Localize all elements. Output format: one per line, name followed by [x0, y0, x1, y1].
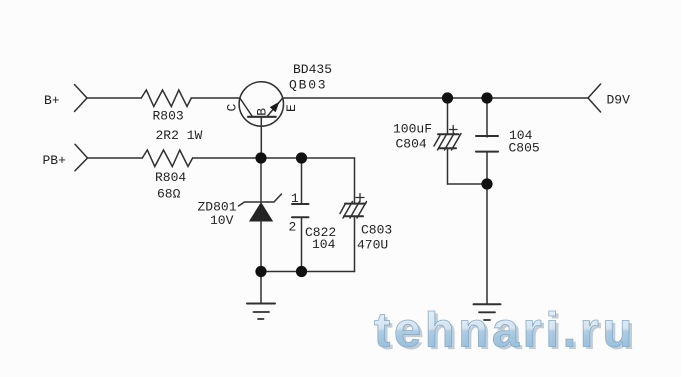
- svg-text:C803: C803: [361, 223, 392, 238]
- svg-text:D9V: D9V: [607, 92, 631, 107]
- svg-text:470U: 470U: [357, 238, 388, 253]
- zener ZD801 anode triangle: [250, 203, 272, 221]
- connector chevron PB+: [75, 144, 88, 170]
- zener ZD801 top lead: [260, 158, 262, 202]
- svg-text:C: C: [225, 104, 240, 112]
- transistor Q803 emitter arrow: [271, 103, 279, 112]
- capacitor C803 top lead: [354, 158, 356, 203]
- transistor Q803 collector slant: [241, 99, 253, 116]
- junction dot C804/C805 bottom: [481, 178, 492, 189]
- junction dot PB+ / zener: [255, 152, 266, 163]
- svg-text:C804: C804: [396, 137, 427, 152]
- svg-text:R803: R803: [153, 109, 184, 124]
- junction dot top rail 2: [481, 92, 492, 103]
- svg-text:100uF: 100uF: [393, 122, 432, 137]
- capacitor C805 top stub: [486, 98, 488, 137]
- connector chevron B+: [75, 85, 88, 112]
- transistor Q803 base bar: [248, 116, 276, 118]
- wire bottom bus: [261, 271, 355, 273]
- capacitor C804 hatch: [434, 136, 440, 147]
- capacitor C804 plus sign: [450, 129, 458, 131]
- wire B+ to R803: [87, 97, 141, 99]
- ground (C805): [474, 303, 501, 305]
- junction dot bus / zener: [255, 266, 266, 277]
- ground (zener): [247, 303, 275, 305]
- zener ZD801 cathode bar: [239, 194, 282, 206]
- svg-text:C805: C805: [509, 141, 540, 156]
- svg-text:tehnari.ru: tehnari.ru: [374, 303, 636, 357]
- wire base lead: [260, 118, 262, 158]
- capacitor C804 bottom lead: [447, 148, 449, 184]
- connector chevron D9V: [588, 84, 601, 112]
- capacitor C803 bottom lead: [354, 216, 356, 271]
- resistor R803: [141, 90, 191, 107]
- wire PB+ to R804: [88, 157, 143, 159]
- svg-text:10V: 10V: [210, 213, 234, 228]
- svg-text:68Ω: 68Ω: [157, 186, 181, 201]
- zener ZD801 bottom lead: [260, 221, 262, 272]
- svg-text:PB+: PB+: [43, 153, 67, 168]
- svg-text:B: B: [254, 108, 269, 116]
- junction dot top rail 1: [442, 92, 453, 103]
- transistor Q803 emitter slant: [268, 99, 283, 117]
- capacitor C803 top plate: [345, 203, 366, 205]
- svg-text:104: 104: [312, 237, 336, 252]
- capacitor C803 plus sign: [356, 197, 364, 199]
- svg-text:2R2 1W: 2R2 1W: [156, 128, 203, 143]
- wire R804 to C803 corner: [193, 157, 355, 159]
- svg-text:2: 2: [289, 220, 297, 235]
- wire C804 to junction: [448, 183, 488, 185]
- capacitor C805 bottom plate: [476, 151, 498, 153]
- wire emitter to D9V: [283, 97, 589, 99]
- capacitor C805 top plate: [476, 135, 498, 137]
- wire zener ground lead: [260, 272, 262, 304]
- capacitor C822 bottom plate: [292, 216, 309, 218]
- svg-text:BD435: BD435: [293, 62, 332, 77]
- svg-text:R804: R804: [155, 170, 186, 185]
- svg-text:QB03: QB03: [289, 77, 327, 92]
- svg-text:B+: B+: [44, 93, 60, 108]
- capacitor C822 top plate: [292, 203, 309, 205]
- resistor R804: [142, 150, 192, 167]
- junction dot PB+ / C822: [296, 152, 307, 163]
- wire R803 to Q803 collector: [191, 97, 240, 99]
- capacitor C822 bottom stub: [301, 218, 303, 272]
- svg-text:1: 1: [291, 191, 299, 206]
- svg-text:E: E: [284, 104, 299, 112]
- capacitor C803 hatch: [340, 204, 346, 214]
- junction dot bus / C822: [296, 266, 307, 277]
- capacitor C805 bottom lead / ground lead: [486, 152, 488, 304]
- capacitor C803 bottom plate: [344, 215, 363, 217]
- transistor Q803 circle: [239, 82, 283, 126]
- capacitor C822 top stub: [301, 158, 303, 203]
- capacitor C804 top stub: [447, 98, 449, 134]
- capacitor C804 bottom plate: [439, 147, 456, 149]
- capacitor C804 top plate: [438, 133, 459, 135]
